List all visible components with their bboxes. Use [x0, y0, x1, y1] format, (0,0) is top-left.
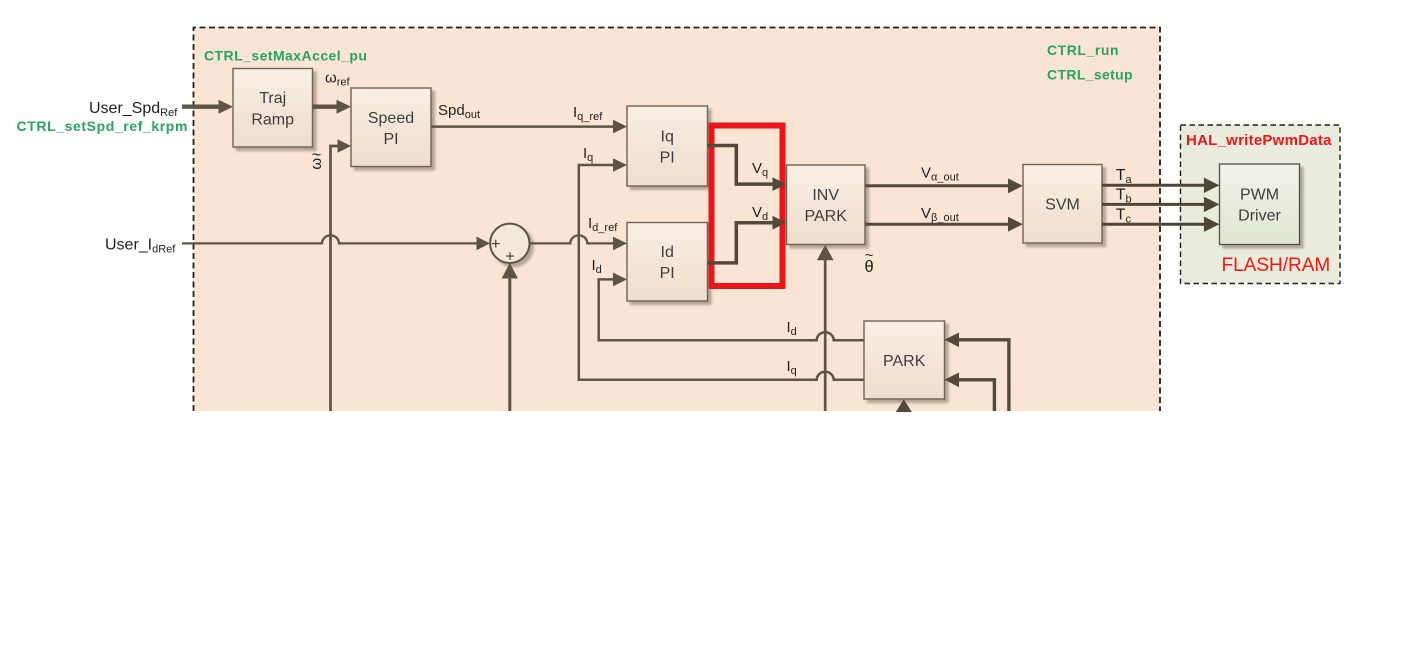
wire Tc SVM to PWM Driver	[1102, 223, 1205, 226]
wire Iq feedback from PARK to Iq PI	[579, 165, 864, 380]
block SVM	[1023, 165, 1102, 244]
wire User_IdRef into summing junction	[182, 235, 477, 243]
wire into summing junction from below	[508, 272, 511, 411]
wire into PARK right lower	[958, 380, 994, 411]
svg-text:CTRL_setMaxAccel_pu: CTRL_setMaxAccel_pu	[204, 48, 367, 64]
svg-text:PI: PI	[660, 265, 675, 282]
block PWM Driver	[1220, 164, 1300, 245]
svg-text:Iq: Iq	[661, 129, 674, 146]
wire Vq from Iq PI to INV PARK	[708, 146, 774, 185]
wire Id feedback from PARK to Id PI	[599, 279, 864, 340]
svg-text:~: ~	[312, 146, 322, 164]
svg-text:PARK: PARK	[805, 208, 848, 225]
svg-text:Driver: Driver	[1238, 208, 1281, 225]
wire Ta SVM to PWM Driver	[1102, 184, 1205, 187]
red highlight rectangle	[712, 126, 783, 287]
wire theta into INV PARK from below	[824, 258, 827, 411]
svg-text:CTRL_setSpd_ref_krpm: CTRL_setSpd_ref_krpm	[17, 118, 189, 134]
wire summing junction to Id PI (Id_ref)	[530, 235, 615, 243]
svg-text:CTRL_run: CTRL_run	[1047, 42, 1119, 58]
FLASH/RAM dashed box	[1181, 125, 1341, 284]
wire V_alpha_out INV PARK to SVM	[865, 184, 1009, 187]
svg-text:Traj: Traj	[259, 90, 286, 107]
block Iq PI	[627, 106, 708, 186]
CTRL object dashed box (peach region)	[194, 28, 1161, 412]
svg-text:INV: INV	[812, 187, 839, 204]
svg-text:Id: Id	[661, 244, 674, 261]
block PARK	[864, 321, 945, 399]
block Traj Ramp	[233, 69, 313, 148]
svg-text:HAL_writePwmData: HAL_writePwmData	[1186, 132, 1332, 149]
wire V_beta_out INV PARK to SVM	[865, 223, 1009, 226]
svg-text:Ramp: Ramp	[251, 112, 294, 129]
svg-text:Speed: Speed	[368, 110, 414, 127]
svg-text:CTRL_setup: CTRL_setup	[1047, 67, 1133, 83]
svg-text:~: ~	[865, 247, 874, 264]
wire Traj Ramp to Speed PI arrow	[313, 104, 339, 108]
wire omega feedback into Speed PI	[331, 146, 339, 411]
svg-text:PWM: PWM	[1240, 187, 1279, 204]
svg-text:PARK: PARK	[883, 353, 926, 370]
wire Spd_out to Iq PI	[431, 125, 614, 128]
wire User_SpdRef input arrow	[182, 104, 220, 108]
svg-text:+: +	[491, 236, 500, 253]
wire Tb SVM to PWM Driver	[1102, 203, 1205, 206]
wire into PARK bottom	[902, 406, 905, 411]
wire Vd from Id PI to INV PARK	[708, 223, 774, 263]
svg-text:PI: PI	[660, 150, 675, 167]
label omega tilde (rotated)	[308, 146, 325, 170]
svg-text:PI: PI	[383, 131, 398, 148]
svg-text:FLASH/RAM: FLASH/RAM	[1222, 255, 1331, 276]
block Speed PI	[351, 88, 431, 167]
svg-text:+: +	[505, 248, 514, 265]
svg-text:SVM: SVM	[1045, 197, 1080, 214]
block Id PI	[627, 223, 708, 302]
wire into PARK right upper	[958, 340, 1009, 411]
block INV PARK	[787, 165, 866, 245]
summing junction	[490, 224, 529, 263]
